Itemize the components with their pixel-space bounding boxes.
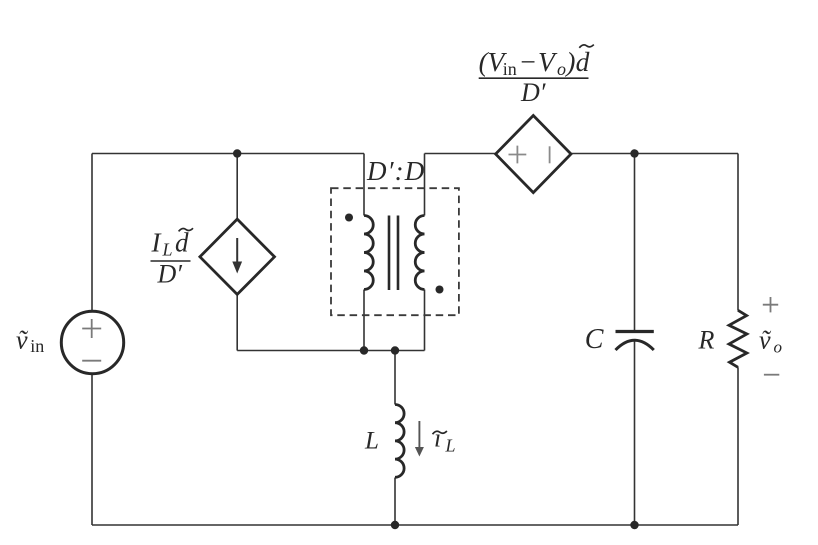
svg-text:o: o (557, 59, 566, 79)
junction node bottom inductor (391, 521, 399, 529)
transformer core lines (389, 216, 398, 291)
svg-text:): ) (564, 46, 575, 77)
tilde over d (top fraction) (579, 45, 594, 48)
wire left upper (91, 154, 93, 312)
secondary polarity dot (436, 286, 444, 294)
voltage source diamond plus (509, 146, 527, 164)
svg-text:D′:D: D′:D (366, 156, 425, 186)
wire primary bottom stub (363, 290, 365, 351)
v_in plus sign (82, 319, 101, 338)
dependent current source diamond (200, 219, 275, 294)
svg-text:ṽ: ṽ (16, 326, 29, 355)
svg-text:ṽ: ṽ (759, 326, 772, 355)
wire secondary top stub (424, 154, 426, 216)
capacitor C top plate (616, 330, 654, 333)
svg-text:−: − (520, 46, 536, 77)
junction node mid inductor (391, 346, 399, 354)
wire middle horizontal (237, 350, 424, 352)
svg-text:d: d (175, 227, 189, 257)
transformer dashed box (331, 188, 459, 315)
wire capacitor bottom stub (634, 340, 636, 525)
voltage source v_in circle (61, 311, 123, 373)
wire current source top (236, 154, 238, 220)
wire inductor bottom stub (394, 478, 396, 526)
svg-text:D′: D′ (520, 78, 546, 107)
voltage source diamond bar (549, 146, 551, 163)
wire bottom (92, 524, 738, 526)
output plus sign (763, 297, 778, 312)
transformer primary winding (364, 216, 373, 290)
resistor R zigzag (729, 310, 747, 367)
wire primary top stub (363, 154, 365, 216)
svg-text:in: in (503, 59, 517, 79)
svg-text:in: in (30, 336, 44, 356)
wire right lower (737, 367, 739, 525)
svg-text:D′: D′ (157, 259, 183, 288)
wire capacitor top stub (634, 154, 636, 331)
output minus sign (764, 374, 779, 376)
wire top right (571, 153, 739, 155)
svg-text:C: C (585, 324, 604, 355)
svg-text:d: d (576, 46, 590, 77)
tilde over i (433, 431, 447, 434)
junction node mid primary (360, 346, 368, 354)
svg-text:L: L (162, 240, 173, 260)
wire left lower (91, 374, 93, 526)
svg-text:L: L (364, 427, 379, 454)
dependent voltage source diamond (496, 116, 571, 193)
junction node top capacitor (630, 149, 638, 157)
junction node top current source (233, 149, 241, 157)
wire secondary bottom stub (424, 290, 426, 351)
junction node bottom capacitor (630, 521, 638, 529)
tilde over d (I_L fraction) (179, 228, 193, 231)
svg-text:I: I (151, 227, 163, 257)
inductor L coil (395, 405, 404, 478)
transformer secondary winding (415, 216, 424, 290)
capacitor C curved plate (616, 340, 654, 350)
wire current source bottom (236, 294, 238, 351)
svg-text:V: V (538, 46, 558, 77)
wire right upper (737, 154, 739, 311)
wire top left (92, 153, 364, 155)
v_in minus sign (82, 360, 101, 362)
svg-text:ı: ı (434, 424, 441, 453)
svg-text:L: L (445, 436, 456, 456)
svg-text:o: o (774, 338, 783, 357)
inductor current arrow (418, 421, 420, 448)
wire inductor top stub (394, 351, 396, 405)
wire top middle (425, 153, 497, 155)
primary polarity dot (345, 214, 353, 222)
svg-text:R: R (698, 326, 715, 355)
current source arrow (236, 238, 238, 263)
